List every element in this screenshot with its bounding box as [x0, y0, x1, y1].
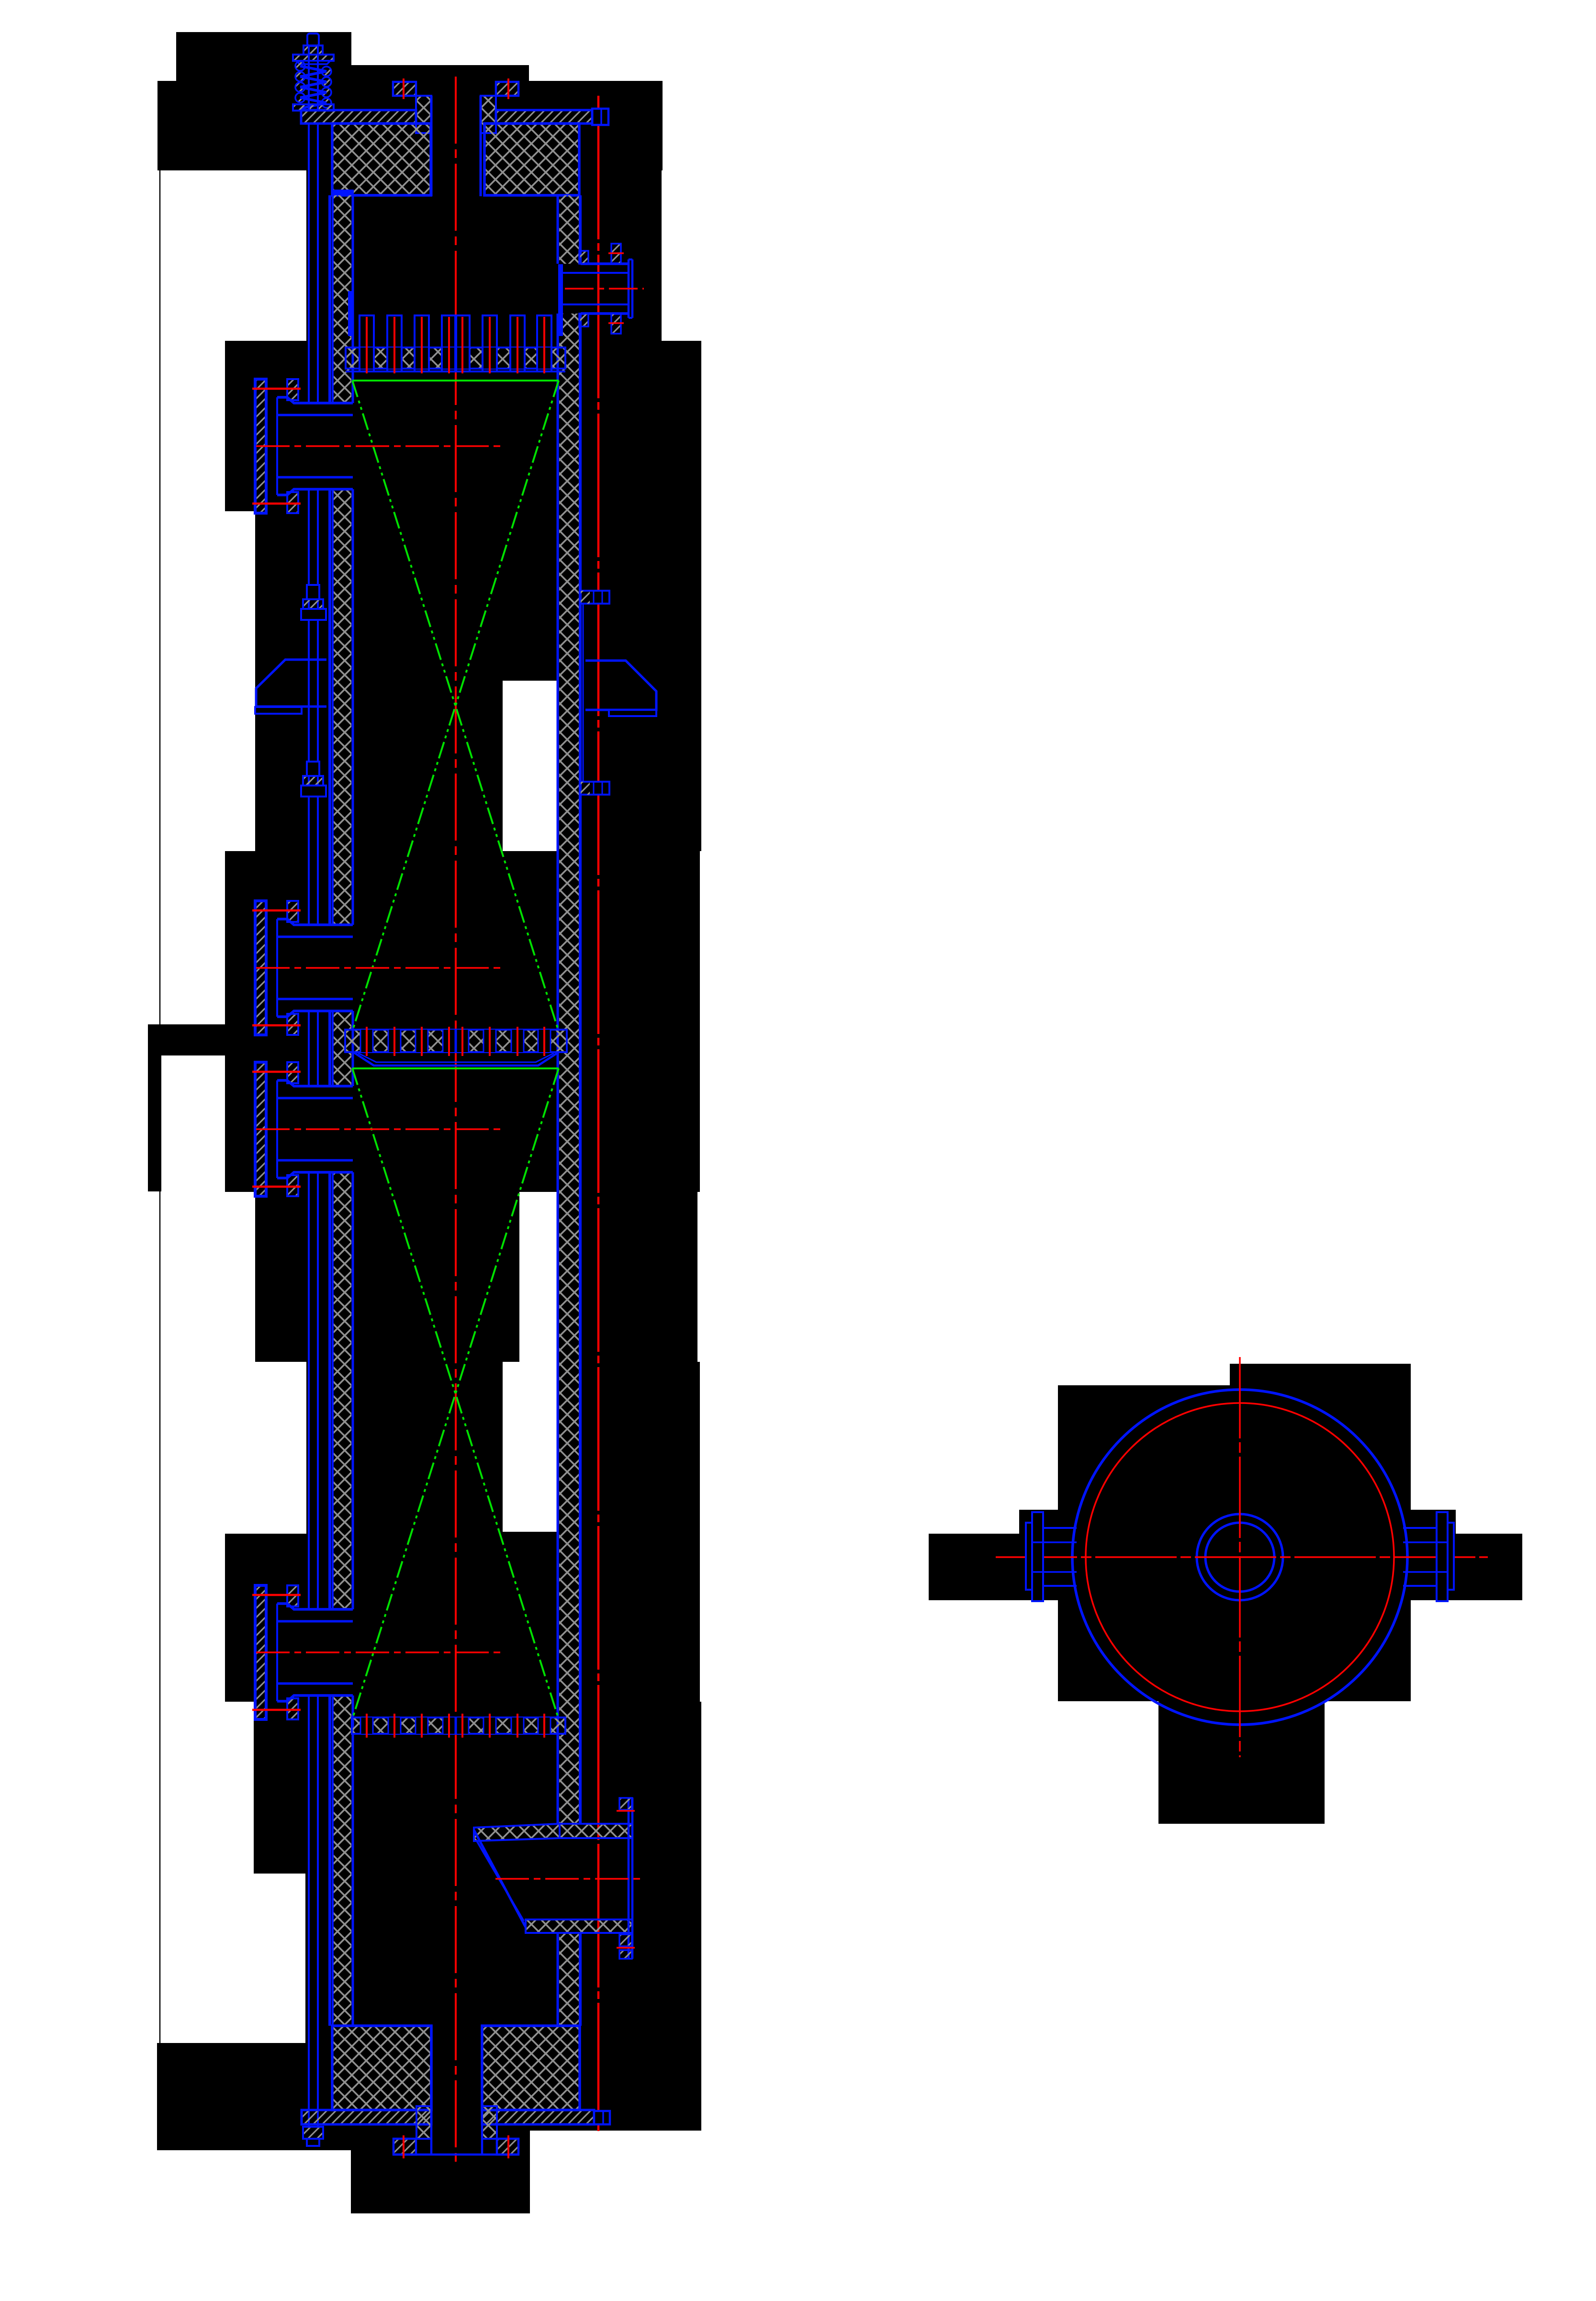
nozzle N7 chute slant: [474, 1830, 526, 1927]
nozzle N4 side nozzle centerline: [256, 1128, 500, 1130]
spring top washer: [293, 55, 334, 61]
bottom flange block right: [482, 2026, 580, 2110]
column centerline: [455, 77, 457, 2167]
bottom flange block left: [332, 2026, 431, 2110]
nozzle N1 top vapour outlet flange: [393, 82, 416, 96]
stud nut: [303, 45, 323, 55]
nozzle N1 bore lines: [430, 96, 433, 196]
shell wall right: [557, 195, 559, 264]
support bracket right: [585, 661, 656, 710]
liquid distributor support ring: [346, 348, 565, 369]
nozzle N3 manhole flange: [255, 901, 266, 1035]
nozzle N3 manhole bolts: [287, 901, 298, 922]
packing bed 2 top line: [352, 1067, 559, 1069]
nozzle N7 centerline: [495, 1878, 641, 1880]
tie rod bottom nut: [303, 2127, 323, 2139]
nozzle N7 flange: [628, 1797, 630, 1959]
spring hold-down stud: [307, 34, 319, 46]
dimension extension line (black): [159, 170, 161, 2043]
nozzle N4 side nozzle bolts: [287, 1062, 298, 1083]
tie rod left full length: [308, 123, 310, 403]
nozzle N1 neck walls: [416, 96, 431, 133]
nozzle N6 centerline: [565, 288, 644, 290]
liner strip right: [558, 264, 563, 336]
left wall top cap: [332, 190, 354, 196]
nozzle N5 manhole centerline: [256, 1651, 500, 1653]
tie rod left (through spring): [308, 45, 310, 110]
redistributor tray band: [345, 1030, 567, 1052]
nozzle N2 manhole centerline: [256, 445, 500, 447]
plan view left nozzle: [1032, 1512, 1043, 1601]
nozzle N2 manhole bolts: [287, 379, 298, 400]
white gaps inside canvas: [503, 681, 558, 851]
support bracket left: [256, 660, 326, 707]
nozzle N1 bolt centerlines: [403, 79, 405, 99]
top flange block left: [332, 123, 431, 195]
top cover plate: [301, 110, 416, 123]
nozzle N3 manhole centerline: [256, 967, 500, 969]
top cover plate end cap: [592, 109, 608, 125]
plan view center nozzle circles: [1197, 1514, 1283, 1600]
liner strip left: [348, 291, 354, 336]
plan view centerlines: [996, 1556, 1488, 1558]
nozzle N5 manhole neck: [277, 1604, 353, 1609]
nozzle N5 manhole flange: [255, 1585, 266, 1719]
nozzle N8 bottom outlet neck: [416, 2106, 431, 2139]
spring coils: [295, 61, 305, 71]
nozzle N2 manhole neck: [277, 397, 353, 403]
nozzle N5 manhole bolts: [287, 1585, 298, 1606]
nozzle N6 reflux inlet neck: [581, 262, 629, 265]
nozzle N7 bottom band: [526, 1919, 632, 1933]
shell wall left: [328, 195, 331, 403]
rod clip right 1: [581, 591, 609, 604]
redistributor collector cone: [353, 1052, 559, 1066]
nozzle N6 flange: [628, 259, 630, 318]
distributor drip point centerlines: [366, 317, 368, 373]
packing bed 1 top line: [352, 380, 559, 382]
packing bed 2 cone lines: [353, 1068, 559, 1717]
packing support plate: [352, 1717, 565, 1734]
spring bottom washer: [293, 104, 334, 111]
packing bed 1 cone lines: [353, 381, 559, 1028]
bottom cover plate: [302, 2110, 431, 2124]
nozzle N4 side nozzle flange: [255, 1062, 266, 1196]
tie rod coupling 1: [307, 585, 319, 599]
plan view bolt circle: [1086, 1403, 1394, 1711]
nozzle N7 bolts: [619, 1798, 632, 1810]
nozzle N2 manhole flange: [255, 379, 266, 513]
nozzle N6 wall collar: [579, 251, 588, 264]
distributor risers: [360, 315, 374, 371]
top flange block right: [484, 123, 579, 195]
redistributor drip centerlines: [366, 1027, 368, 1056]
nozzle N6 bolts: [611, 244, 621, 264]
support plate centerlines: [366, 1714, 368, 1738]
plan view right nozzle: [1437, 1512, 1448, 1601]
plan view shell circle: [1072, 1390, 1407, 1725]
nozzle N8 flange: [393, 2139, 416, 2155]
nozzle N3 manhole neck: [277, 919, 353, 925]
nozzle N4 side nozzle neck: [277, 1080, 353, 1086]
nozzle N7 vapour inlet top band: [474, 1824, 560, 1841]
tie-rod bolt circle centerline right: [597, 96, 600, 2131]
bottom plate end cap: [594, 2111, 610, 2124]
nozzle N8 bolt centerlines: [403, 2135, 405, 2158]
rod guide line right: [583, 604, 584, 782]
